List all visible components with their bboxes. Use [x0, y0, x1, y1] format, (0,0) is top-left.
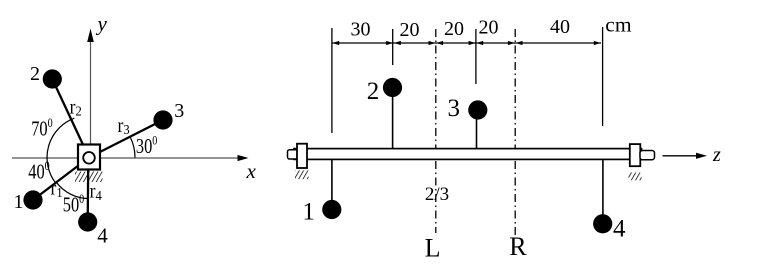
- svg-text:2/3: 2/3: [425, 184, 449, 205]
- y-axis: [87, 29, 94, 158]
- rod r3: [89, 120, 163, 158]
- extension line left end / mass 1 plane: [331, 28, 333, 133]
- mass 1 (right figure): [322, 200, 341, 219]
- rod mass 3 (right figure): [476, 117, 478, 150]
- svg-text:R: R: [509, 232, 527, 261]
- shaft: [294, 149, 642, 160]
- rod r2: [52, 79, 89, 158]
- label 40 degrees: [28, 159, 50, 184]
- label 50 degrees: [63, 192, 85, 217]
- hub square: [78, 145, 100, 170]
- svg-text:40: 40: [550, 16, 570, 38]
- z-axis: [663, 153, 708, 159]
- svg-text:4: 4: [613, 216, 626, 243]
- label r1: [51, 178, 63, 200]
- left bearing hatch: [295, 170, 309, 179]
- mass 3 (right figure): [468, 100, 487, 119]
- dimension line: [332, 42, 601, 44]
- svg-text:r3: r3: [118, 115, 130, 137]
- svg-text:400: 400: [28, 159, 50, 184]
- mass 2 (right figure): [383, 78, 402, 97]
- svg-text:3: 3: [448, 95, 461, 122]
- svg-text:4: 4: [97, 224, 108, 248]
- left shaft stub: [288, 150, 299, 159]
- mass 4 (left figure): [78, 212, 97, 231]
- right bearing hatch: [629, 172, 642, 180]
- mass 3 (left figure): [153, 110, 172, 129]
- svg-text:x: x: [246, 159, 257, 183]
- rod mass 4 (right figure): [602, 160, 604, 216]
- dash-dot line plane L: [435, 29, 437, 233]
- dim arrows at tick 435.8: [429, 41, 436, 45]
- svg-text:cm: cm: [605, 13, 632, 37]
- rod mass 1 (right figure): [331, 160, 333, 202]
- arc 70-40 degrees: [47, 118, 74, 183]
- svg-text:500: 500: [63, 192, 85, 217]
- svg-text:20: 20: [400, 19, 420, 41]
- dim arrows at tick 475.9: [469, 41, 476, 45]
- mass 2 (left figure): [43, 69, 62, 88]
- extension line right end / mass 4 plane: [602, 27, 604, 126]
- dim arrows at tick 393.5: [386, 41, 393, 45]
- svg-text:300: 300: [136, 133, 158, 158]
- mass 1 (left figure): [23, 190, 42, 209]
- svg-text:r4: r4: [90, 181, 102, 203]
- svg-text:z: z: [712, 144, 721, 166]
- svg-text:y: y: [96, 12, 108, 36]
- arc 50 degrees: [57, 183, 89, 199]
- label r4: [90, 181, 102, 203]
- x-axis: [12, 155, 249, 161]
- svg-text:1: 1: [14, 191, 24, 213]
- svg-text:20: 20: [444, 18, 464, 40]
- hub circle: [83, 152, 95, 164]
- svg-text:20: 20: [479, 17, 499, 39]
- svg-text:r2: r2: [70, 97, 82, 119]
- label r3: [118, 115, 130, 137]
- rod r1: [33, 158, 89, 201]
- right bearing block: [630, 144, 641, 166]
- right shaft stub: [640, 151, 655, 160]
- svg-text:30: 30: [351, 19, 371, 41]
- extension line mass 3 plane: [475, 29, 477, 84]
- svg-text:700: 700: [31, 116, 53, 141]
- label 30 degrees: [136, 133, 158, 158]
- dim arrow right end: [594, 41, 601, 45]
- svg-text:1: 1: [302, 199, 315, 226]
- label r2: [70, 97, 82, 119]
- mass 4 (right figure): [593, 214, 612, 233]
- dash-dot line plane R: [514, 29, 516, 235]
- dim arrow left end: [332, 41, 339, 45]
- rod r4: [87, 158, 90, 223]
- hatch under hub: [75, 172, 103, 183]
- svg-text:L: L: [425, 234, 441, 263]
- svg-text:3: 3: [174, 100, 184, 122]
- svg-text:2: 2: [30, 63, 40, 85]
- svg-text:2: 2: [367, 78, 380, 105]
- extension line mass 2 plane: [392, 29, 394, 65]
- dim arrows at tick 515.2: [508, 41, 515, 45]
- left bearing block: [297, 144, 307, 168]
- arc 30 degrees: [130, 137, 135, 158]
- rod mass 2 (right figure): [392, 95, 394, 150]
- label 70 degrees: [31, 116, 53, 141]
